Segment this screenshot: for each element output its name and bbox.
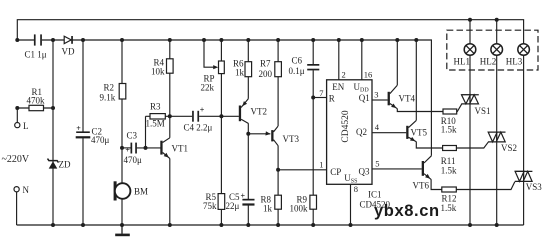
- potentiometer RP 22k: [201, 61, 225, 93]
- watermark ybx8.cn: [374, 202, 440, 220]
- junction dot VT2 collector node: [246, 132, 250, 136]
- junction dot VT3 emitter / CP node: [276, 168, 280, 172]
- resistor R5 75k: [203, 192, 225, 211]
- svg-text:IC1: IC1: [368, 190, 382, 200]
- wire R3 left leg x=145.5: [145, 116, 147, 148]
- svg-text:100k: 100k: [290, 203, 309, 213]
- wire bottom rail y=225: [17, 224, 524, 226]
- svg-text:1: 1: [319, 159, 323, 169]
- resistor R2 9.1k: [100, 83, 126, 103]
- svg-text:R12: R12: [442, 194, 457, 204]
- wire column x=169.8 rail to VT1 collector: [169, 40, 171, 138]
- junction dot C3/BM/R2 node: [120, 146, 124, 150]
- junction dot VT1 collector node: [168, 114, 172, 118]
- wire column x=83 (C2) upper: [82, 40, 84, 132]
- label CD4520 under IC: [360, 199, 391, 209]
- capacitor C5 22u: [226, 191, 255, 211]
- svg-text:8: 8: [354, 184, 358, 194]
- svg-text:5: 5: [375, 159, 379, 169]
- label IC1: [368, 190, 382, 200]
- wire pin 7 link y=97.5: [313, 97, 326, 99]
- svg-text:~220V: ~220V: [2, 154, 30, 165]
- svg-text:VS3: VS3: [526, 182, 543, 192]
- triac VS3: [515, 171, 543, 192]
- transistor VT6: [413, 156, 432, 191]
- wire pin 16 drop x=361.8: [361, 40, 363, 80]
- wire VDD rail y=40 with corner down to VT6 collector: [42, 40, 432, 156]
- svg-text:VD: VD: [62, 47, 75, 57]
- junction dots on bottom rail: [51, 223, 499, 227]
- svg-text:VT5: VT5: [411, 128, 428, 138]
- junction dots on top line: [468, 18, 499, 22]
- wire R1 row y=108: [17, 107, 53, 109]
- svg-text:470μ: 470μ: [124, 155, 143, 165]
- junction dot C6 / pin7 node: [311, 96, 315, 100]
- wire pin 2 drop x=338.8: [338, 40, 340, 80]
- label ~220V mains: [2, 154, 30, 165]
- resistor R7 200: [259, 59, 282, 80]
- wire Q1 to VT4 base y=100: [372, 99, 388, 101]
- svg-text:+: +: [125, 146, 130, 155]
- zener diode ZD: [48, 159, 71, 170]
- resistor R8 1k: [261, 195, 282, 214]
- capacitor C2 470u: [76, 124, 110, 145]
- wire column x=122 from rail to BM top: [121, 40, 123, 183]
- svg-text:Q2: Q2: [356, 127, 367, 137]
- svg-text:VS1: VS1: [475, 106, 491, 116]
- svg-text:1.5k: 1.5k: [441, 203, 457, 213]
- svg-text:C1 1μ: C1 1μ: [25, 50, 47, 60]
- svg-text:Q3: Q3: [359, 166, 370, 176]
- triac VS1: [461, 95, 490, 116]
- wire Q2 to VT5 base y=132.7: [372, 132, 406, 134]
- svg-text:1.5k: 1.5k: [441, 124, 457, 134]
- svg-text:470k: 470k: [27, 96, 46, 106]
- resistor R1 470k: [27, 87, 46, 111]
- junction dot RP/C4/R5 node: [219, 114, 223, 118]
- wire column x=122 BM bottom to rail: [121, 199, 123, 225]
- svg-text:HL1: HL1: [454, 57, 471, 67]
- terminal L: [15, 121, 29, 131]
- wire column x=221.4 rail through RP junction and R5 to bottom rail: [220, 40, 222, 225]
- svg-text:7: 7: [319, 88, 323, 98]
- resistor R11 1.5k: [441, 146, 457, 176]
- wire HL2/VS2 column lower: [496, 55, 498, 225]
- wire column x=313.2 C6 through R9 to bottom rail: [312, 70, 314, 225]
- wire column x=248.3 rail to VT2 emitter: [247, 40, 249, 99]
- svg-text:C6: C6: [292, 56, 303, 66]
- svg-text:1k: 1k: [235, 68, 245, 78]
- svg-text:+: +: [200, 106, 205, 115]
- svg-text:1.5M: 1.5M: [146, 119, 165, 129]
- transistor VT4: [388, 85, 416, 109]
- svg-text:R7: R7: [260, 59, 271, 69]
- wire RP wiper from rail x=204: [204, 40, 214, 67]
- terminal N: [14, 185, 30, 195]
- wire mic line y=147.9 left of C3: [122, 147, 131, 149]
- svg-text:16: 16: [364, 69, 373, 79]
- svg-text:1.5k: 1.5k: [441, 165, 457, 175]
- transistor VT2: [239, 99, 267, 124]
- wire Q3 to VT6 base y=168.9: [372, 168, 422, 170]
- svg-text:2: 2: [342, 69, 346, 79]
- lamp HL3: [506, 44, 530, 67]
- resistor R6 1k: [233, 59, 252, 78]
- resistor R4 10k: [151, 58, 173, 77]
- wire HL1/VS1 column lower: [469, 55, 471, 225]
- wire top line from L column to HL3: [17, 20, 523, 44]
- svg-text:VT3: VT3: [283, 134, 300, 144]
- capacitor C1 1u: [25, 34, 47, 59]
- IC IC1 CD4520: [319, 69, 380, 194]
- svg-text:10k: 10k: [151, 67, 165, 77]
- resistor R12 1.5k: [441, 187, 457, 213]
- resistor R3 1.5M: [146, 102, 166, 129]
- wire VT4 emitter row y=111.5 to VS1 gate: [397, 104, 461, 111]
- transistor VT5: [406, 120, 427, 141]
- svg-text:9.1k: 9.1k: [100, 93, 116, 103]
- svg-text:470μ: 470μ: [91, 135, 110, 145]
- svg-text:75k: 75k: [203, 201, 217, 211]
- dashed enclosure for lamps: [447, 30, 538, 70]
- lamp HL1: [454, 44, 476, 67]
- svg-text:HL2: HL2: [480, 57, 497, 67]
- svg-text:4: 4: [375, 122, 380, 132]
- wire CP line y=169.8 to IC pin 1: [278, 169, 327, 171]
- junction dot R1 right / ZD: [51, 106, 55, 110]
- svg-text:R2: R2: [104, 83, 115, 93]
- wire HL1 column upper: [469, 20, 471, 44]
- svg-text:VS2: VS2: [501, 143, 517, 153]
- wire pin 8 drop x=350.5: [350, 184, 352, 225]
- svg-text:HL3: HL3: [506, 57, 523, 67]
- wire VT5 emitter row y=148 to VS2 gate: [416, 142, 488, 148]
- wire column x=278.1 rail to VT3 collector: [277, 40, 279, 126]
- svg-text:C3: C3: [127, 131, 138, 141]
- wire column x=248.3 VT2 collector down through C5 gap upper: [247, 123, 249, 199]
- resistor R10 1.5k: [441, 109, 457, 134]
- junction dot R1 left: [15, 106, 19, 110]
- svg-text:22k: 22k: [201, 83, 215, 93]
- wire VT4 collector x=397.3: [396, 40, 398, 85]
- resistor R9 100k: [290, 195, 317, 214]
- wire VT2 to VT3 base y=133.8: [248, 133, 270, 135]
- microphone BM: [114, 181, 148, 200]
- wire L terminal stub: [16, 108, 18, 122]
- svg-text:+: +: [76, 124, 81, 133]
- svg-text:0.1μ: 0.1μ: [289, 66, 305, 76]
- wire column x=83 (C2) lower: [82, 138, 84, 225]
- transistor VT3: [271, 126, 299, 146]
- svg-text:ybx8.cn: ybx8.cn: [374, 202, 440, 220]
- wire C4 row y=116.3 right of C4: [199, 115, 239, 117]
- svg-text:200: 200: [259, 69, 273, 79]
- wire HL2 column upper: [496, 20, 498, 44]
- junction dot R3 base node: [144, 146, 148, 150]
- svg-text:L: L: [23, 121, 29, 131]
- svg-text:22μ: 22μ: [226, 201, 240, 211]
- svg-text:CD4520: CD4520: [341, 110, 351, 142]
- wire column x=169.8 VT1 emitter to bottom rail: [169, 158, 171, 225]
- capacitor C3 470u: [124, 131, 143, 166]
- svg-text:N: N: [23, 185, 30, 195]
- svg-text:EN: EN: [332, 82, 344, 92]
- svg-text:1k: 1k: [263, 203, 273, 213]
- triac VS2: [488, 132, 517, 153]
- junction dots on VDD rail: [15, 38, 418, 42]
- wire R3/C4 row y=116.3 left of C4: [146, 115, 193, 117]
- svg-text:VT1: VT1: [172, 144, 189, 154]
- svg-text:VT2: VT2: [251, 107, 268, 117]
- wire HL3/VS3 column lower: [523, 55, 525, 225]
- svg-text:3: 3: [374, 90, 378, 100]
- wire column x=248.3 C5 to bottom rail: [247, 205, 249, 225]
- svg-text:R: R: [329, 93, 335, 103]
- lamp HL2: [480, 44, 503, 67]
- capacitor C4 2.2u: [184, 106, 213, 133]
- wire column x=53 from rail through ZD to bottom rail: [52, 40, 54, 225]
- diode VD: [62, 36, 75, 57]
- wire VT6 emitter row y=189.5 to VS3 gate: [431, 179, 515, 189]
- wire VDD rail left stub to C1: [17, 39, 34, 41]
- svg-text:R3: R3: [150, 102, 161, 112]
- svg-text:C4 2.2μ: C4 2.2μ: [184, 123, 213, 133]
- svg-text:+: +: [241, 191, 246, 200]
- svg-text:ZD: ZD: [59, 160, 71, 170]
- wire mic line y=147.9 right of C3: [137, 147, 161, 149]
- wire VT5 collector x=416.3: [415, 40, 417, 120]
- svg-text:BM: BM: [134, 187, 148, 197]
- transistor VT1: [160, 138, 188, 159]
- svg-text:VT6: VT6: [413, 180, 430, 190]
- ground: [115, 225, 130, 236]
- capacitor C6 0.1u: [289, 56, 320, 77]
- wire column x=278.1 VT3 emitter through R8 to bottom rail: [277, 146, 279, 225]
- svg-text:VT4: VT4: [399, 94, 416, 104]
- svg-text:Q1: Q1: [359, 93, 370, 103]
- svg-text:CP: CP: [330, 167, 341, 177]
- wire column x=313.2 rail to C6: [312, 40, 314, 64]
- wire N terminal stub: [16, 192, 18, 225]
- arrow on VT3 base wire: [265, 131, 270, 135]
